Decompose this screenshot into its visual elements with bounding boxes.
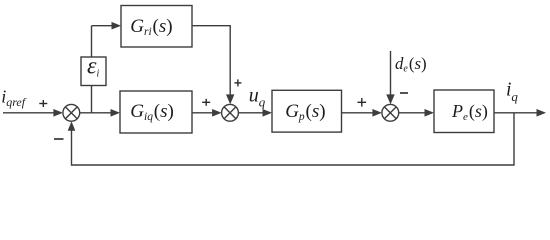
block Gp(s) <box>272 90 342 132</box>
wire feedback from output down, left, up to S1 <box>72 113 515 165</box>
svg-text:Pe(s): Pe(s) <box>451 101 488 123</box>
arrowhead output iq <box>537 109 547 117</box>
svg-text:uq: uq <box>249 84 266 109</box>
block epsilon_i <box>81 53 106 85</box>
label minus above S3 <box>400 92 408 94</box>
arrowhead down into S3 from de <box>386 94 394 104</box>
svg-text:de(s): de(s) <box>395 54 427 75</box>
arrowhead feedback up into S1 <box>68 121 76 131</box>
svg-text:iq: iq <box>506 79 518 103</box>
summing junction S3 <box>382 104 399 121</box>
arrowhead into S1 <box>53 109 63 117</box>
label minus below S1 <box>54 138 64 140</box>
wire input iqref to S1 <box>3 112 55 114</box>
block Pe(s) <box>434 90 494 133</box>
wire Pe to output iq <box>494 112 538 114</box>
wire S3 to Pe <box>399 112 426 114</box>
arrowhead into Giq <box>111 109 121 117</box>
wire Gri output down to S2 <box>192 26 230 97</box>
wire epsilon to Gri <box>92 25 114 27</box>
wire S2 to Gp <box>238 112 264 114</box>
svg-text:Gp(s): Gp(s) <box>285 101 325 123</box>
wire S1 to Giq <box>80 112 112 114</box>
wire de(s) down to S3 <box>390 51 392 97</box>
wire branch up from S1 output through epsilon box <box>91 86 93 113</box>
label plus above S2 <box>234 79 241 86</box>
wire Giq to S2 <box>192 112 214 114</box>
block Giq(s) <box>120 91 192 133</box>
label plus left of S2 <box>202 99 210 106</box>
summing junction S2 <box>222 104 239 121</box>
arrowhead into Pe <box>425 109 435 117</box>
svg-text:iqref: iqref <box>1 86 27 108</box>
wire Gp to S3 <box>342 112 374 114</box>
arrowhead into Gp <box>263 109 273 117</box>
block Gri(s) <box>121 6 192 48</box>
label plus at input <box>39 100 47 107</box>
arrowhead into S3 <box>372 109 382 117</box>
arrowhead into S2 from Giq <box>212 109 222 117</box>
arrowhead down into S2 <box>226 94 234 104</box>
arrowhead into Gri <box>112 22 122 30</box>
label plus before S3 <box>358 98 367 107</box>
summing junction S1 <box>63 104 80 121</box>
